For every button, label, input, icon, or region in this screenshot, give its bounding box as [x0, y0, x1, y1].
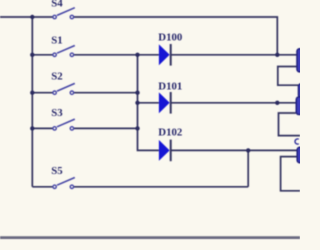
diode D101: [159, 92, 171, 114]
wire S2 row left: [32, 92, 53, 94]
wire top rail from left edge: [0, 16, 53, 18]
wire D102 cathode to right edge: [172, 149, 298, 151]
svg-text:S3: S3: [51, 107, 63, 119]
diode D100: [159, 44, 171, 66]
switch S1: [53, 46, 75, 57]
switch S3: [53, 119, 75, 130]
wire S5 row right: [74, 186, 249, 188]
diode D102: [159, 140, 171, 162]
wire middle vertical bus, corner into D102 anode: [138, 55, 159, 151]
switch S4: [53, 8, 75, 19]
label fragment near lamp LP4: [295, 139, 299, 144]
node top rail / left bus: [30, 15, 34, 19]
node S2 row / middle bus: [135, 91, 139, 95]
wire D100 cathode to right edge: [172, 54, 297, 56]
wire S1 row right into D100 anode: [74, 54, 159, 56]
node S3 row / left bus: [30, 126, 34, 130]
wire left vertical bus: [31, 17, 33, 187]
svg-text:D100: D100: [158, 32, 182, 44]
wire S3 row left: [32, 127, 53, 129]
lamp LP2 body (cut off at right edge): [299, 84, 308, 98]
node D101 output: [275, 101, 279, 105]
wire jumper loop lamp4 bottom to lamp5: [281, 157, 300, 191]
wire S5 row left: [32, 186, 53, 188]
node S1 row / left bus: [30, 53, 34, 57]
wire S5 branch up to D102 output node: [247, 150, 249, 186]
svg-text:S2: S2: [51, 71, 62, 83]
svg-text:D102: D102: [158, 127, 182, 139]
switch S2: [53, 83, 75, 94]
wire S1 row left: [32, 54, 53, 56]
node S2 row / left bus: [30, 91, 34, 95]
svg-text:S5: S5: [51, 165, 62, 177]
wire S4 to right rail, corner down to D100 output node: [74, 17, 278, 55]
wire S3 row right to middle bus: [74, 127, 138, 129]
svg-text:D101: D101: [158, 81, 182, 93]
wire D101 cathode to right edge: [172, 102, 297, 104]
node D101 row / middle bus: [135, 101, 139, 105]
lamp LP4 body (cut off at right edge): [297, 147, 306, 162]
wire jumper loop lamp3 bottom to lamp4: [279, 113, 301, 136]
node D100 output / right rail: [275, 53, 279, 57]
svg-text:S4: S4: [51, 0, 63, 10]
bus bottom rail: [0, 236, 300, 239]
lamp LP3 body (cut off at right edge): [296, 97, 305, 115]
wire S2 row right to middle bus: [74, 92, 138, 94]
svg-text:S1: S1: [51, 35, 62, 47]
wire D101 anode from middle bus: [138, 102, 159, 104]
lamp LP1 body (cut off at right edge): [297, 49, 306, 72]
switch S5: [53, 178, 75, 189]
wire jumper loop lamp1 bottom to lamp2: [278, 67, 299, 86]
node D102 output / S5 branch: [246, 148, 250, 152]
node S1 row / middle bus: [135, 53, 139, 57]
node S3 row / middle bus: [135, 126, 139, 130]
